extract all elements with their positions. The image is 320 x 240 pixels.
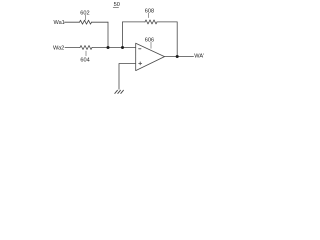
resistor R608 (145, 20, 157, 24)
wire summing node to op-amp inverting input (92, 47, 136, 49)
leader line label 608 (148, 13, 150, 17)
wire feedback top right (157, 21, 177, 23)
wire feedback right vertical to output (176, 22, 178, 57)
wire feedback left vertical (122, 22, 124, 48)
wire op-amp output (165, 56, 194, 58)
resistor R604 (80, 46, 92, 50)
leader line label 604 (85, 51, 87, 56)
svg-text:606: 606 (145, 37, 154, 43)
svg-text:Wa1: Wa1 (54, 20, 65, 26)
resistor R602 (80, 20, 92, 24)
svg-text:WA′: WA′ (194, 54, 204, 60)
svg-text:604: 604 (80, 57, 89, 63)
op-amp minus sign (139, 48, 141, 50)
junction dot node B (121, 46, 124, 49)
op-amp plus sign (139, 62, 142, 65)
wire R602 to corner (92, 21, 109, 23)
svg-text:Wa2: Wa2 (53, 46, 64, 52)
junction dot node A (107, 46, 110, 49)
op-amp U606 triangle (136, 43, 165, 70)
svg-text:608: 608 (145, 8, 154, 14)
svg-text:602: 602 (80, 10, 89, 16)
wire vertical from R602 down to summing node (107, 22, 109, 47)
wire op-amp noninverting input (119, 64, 136, 90)
leader line label 602 (84, 15, 86, 20)
node Wa2 input wire (65, 47, 80, 49)
wire feedback top left (123, 21, 146, 23)
node Wa1 input wire (65, 21, 80, 23)
svg-text:50: 50 (114, 2, 120, 8)
leader line label 606 (150, 42, 152, 48)
label 50 underline (113, 6, 118, 8)
ground symbol (115, 90, 124, 93)
junction dot output node (176, 55, 179, 58)
